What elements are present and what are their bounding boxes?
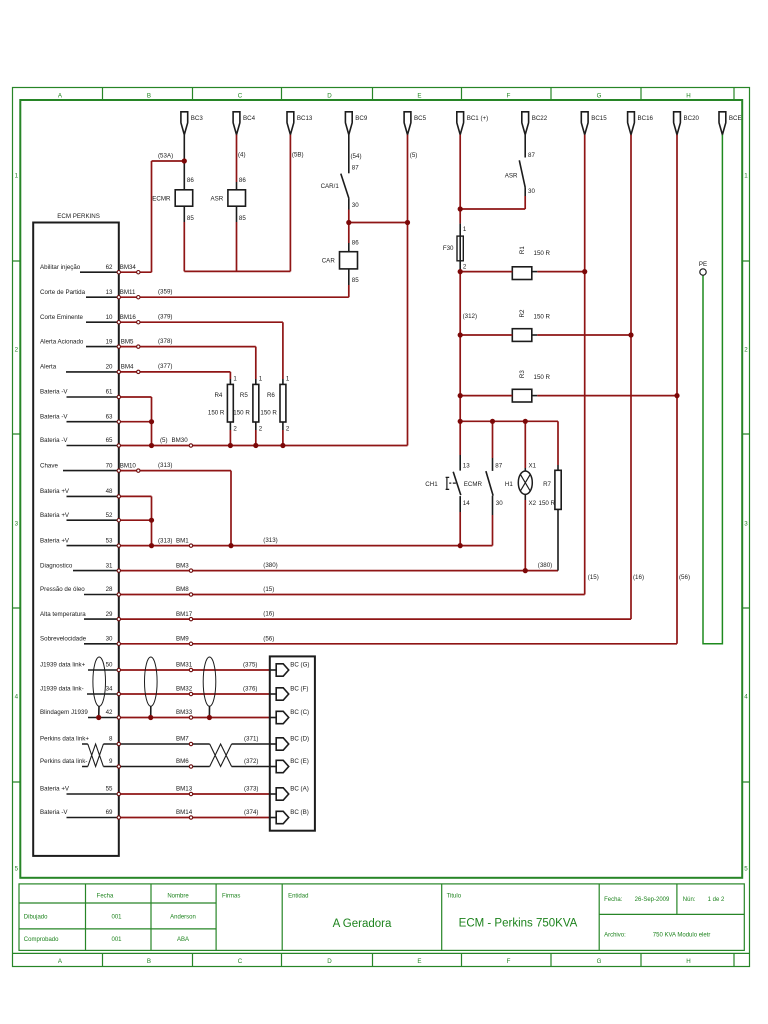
svg-text:R6: R6 [267,392,275,399]
svg-text:85: 85 [187,215,194,222]
wire BC3 down [183,135,185,161]
junction R5 bottom [253,443,258,448]
svg-text:CAR: CAR [322,258,336,265]
pin 9 Perkins data link- / net 372 BM6 [40,758,258,767]
svg-text:4: 4 [15,694,19,701]
svg-text:63: 63 [106,413,113,420]
svg-text:Titulo: Titulo [447,894,462,900]
junction CH1-14 row53 [458,543,463,548]
svg-text:BC9: BC9 [355,115,368,122]
pin 53 Bateria +V / net 313 BM1 [40,537,278,546]
svg-text:2: 2 [463,264,467,271]
svg-text:Alerta Acionado: Alerta Acionado [40,338,84,345]
svg-text:(313): (313) [158,537,172,544]
svg-text:BM11: BM11 [120,289,136,296]
port BC (B) [270,809,309,824]
svg-text:Bateria +V: Bateria +V [40,786,70,793]
svg-text:Anderson: Anderson [170,915,196,921]
svg-text:150 R: 150 R [534,374,551,381]
svg-text:BM4: BM4 [121,364,134,371]
svg-text:E: E [417,958,421,965]
svg-text:D: D [327,958,332,965]
connector BC5 [404,112,426,135]
junction BC5 row222 [405,220,410,225]
svg-text:F: F [507,958,511,965]
wire row 53 to ECMR-30 [121,545,493,547]
svg-text:Fecha:: Fecha: [604,897,623,903]
svg-text:62: 62 [106,264,113,271]
svg-text:R2: R2 [519,309,526,317]
pin 28 Pressao de oleo / net 15 BM8 [40,586,274,595]
svg-text:BC3: BC3 [191,115,204,122]
svg-text:13: 13 [463,462,470,469]
svg-text:G: G [597,93,602,100]
svg-text:BM16: BM16 [120,314,137,321]
svg-text:Chave: Chave [40,462,58,469]
junction 52-53 [149,543,154,548]
svg-text:30: 30 [352,202,359,209]
svg-text:CH1: CH1 [425,481,438,488]
svg-text:Alta temperatura: Alta temperatura [40,611,86,618]
wire net 377 BM4 to R4 [121,372,231,379]
title block [19,884,744,951]
junction 53A [182,158,187,163]
svg-text:Bateria -V: Bateria -V [40,413,68,420]
svg-text:BC (G): BC (G) [290,662,309,669]
svg-text:(4): (4) [238,151,246,158]
svg-text:(54): (54) [351,153,362,160]
svg-text:(53A): (53A) [158,153,173,160]
wire BCE earth bus green [703,135,722,644]
svg-text:C: C [238,958,243,965]
svg-text:Perkins data link-: Perkins data link- [40,758,87,765]
wire BC4 down / node 4 [236,135,238,182]
svg-text:2: 2 [233,425,237,432]
resistor R6 150R [260,375,290,432]
resistor R7 150R [539,421,562,570]
svg-text:BC (B): BC (B) [290,809,309,816]
svg-text:86: 86 [352,240,359,247]
svg-text:BC20: BC20 [684,115,700,122]
svg-text:87: 87 [352,164,359,171]
wire net 380 to R7 bottom [121,570,559,572]
junction 61-63 [149,419,154,424]
connector BC15 [581,112,607,135]
svg-text:Bateria -V: Bateria -V [40,389,68,396]
svg-text:1: 1 [286,375,290,382]
svg-text:Bateria +V: Bateria +V [40,537,70,544]
svg-text:X2: X2 [529,500,537,507]
svg-text:BC (E): BC (E) [290,758,309,765]
wire net 15 to BC15 column [121,594,585,596]
svg-text:BM14: BM14 [176,809,193,816]
wire net 378 BM5 to R5 [121,347,256,379]
svg-text:(374): (374) [244,809,258,816]
svg-text:(372): (372) [244,758,258,765]
fuse F30 [443,224,467,271]
svg-text:85: 85 [352,277,359,284]
svg-text:Sobrevelocidade: Sobrevelocidade [40,636,87,643]
svg-text:65: 65 [106,437,113,444]
svg-text:R5: R5 [240,392,248,399]
svg-text:55: 55 [106,786,113,793]
svg-text:BM17: BM17 [176,611,193,618]
wire BC20 column [676,135,678,644]
connector BC4 [233,112,255,135]
svg-text:(312): (312) [463,313,477,320]
switch CAR/1 [321,164,360,209]
junction CAR1-30 bus [346,220,351,225]
wire pin63 [121,421,152,423]
svg-text:50: 50 [106,662,113,669]
wire BC1 down [460,135,525,224]
svg-text:52: 52 [106,512,113,519]
svg-text:Alerta: Alerta [40,364,57,371]
svg-text:F30: F30 [443,245,454,252]
junction shield taps [96,715,101,720]
svg-text:BC (A): BC (A) [290,786,309,793]
svg-text:Pressão de óleo: Pressão de óleo [40,586,85,593]
svg-text:(16): (16) [633,574,644,581]
wire CH1-14 down [459,512,461,546]
svg-text:Comprobado: Comprobado [24,937,59,943]
ECM PERKINS box U-ECM [33,213,119,856]
wire CAR/1-30 down [348,198,350,209]
svg-text:(15): (15) [263,586,274,593]
svg-text:ECMR: ECMR [152,196,171,203]
svg-text:1: 1 [463,226,467,233]
svg-text:1: 1 [233,375,237,382]
svg-text:ASR: ASR [210,196,223,203]
wire ECMR-30 down [492,515,494,546]
wire BC15 column [584,135,586,595]
svg-text:87: 87 [495,462,502,469]
relay coil ASR [210,177,246,222]
connector BCE [719,112,742,135]
wire net 376 to BC (F) [121,693,270,695]
svg-text:3: 3 [744,521,748,528]
pin 52 Bateria +V [40,512,119,520]
svg-text:BC13: BC13 [297,115,313,122]
svg-text:D: D [327,93,332,100]
svg-text:(359): (359) [158,288,172,295]
svg-text:Blindagem J1939: Blindagem J1939 [40,709,88,716]
svg-text:BC1 (+): BC1 (+) [467,115,489,122]
svg-text:1 de 2: 1 de 2 [708,897,725,903]
svg-text:31: 31 [106,562,113,569]
port BC (F) [270,686,309,701]
wire net 16 to BC16 column [121,618,632,620]
svg-text:28: 28 [106,586,113,593]
svg-text:BM10: BM10 [120,462,137,469]
frame inner border [20,100,742,878]
junction R3 left [458,393,463,398]
junction R2 left [458,332,463,337]
junction R1 right BC15 [582,269,587,274]
svg-text:BM34: BM34 [120,264,137,271]
wire BM34 to node 53A [121,161,185,272]
svg-text:R7: R7 [543,481,551,488]
svg-text:5: 5 [15,866,19,873]
left band ticks and row numbers [13,261,21,782]
junction bus421 H1 [523,419,528,424]
twisted pair cross left [88,744,104,767]
pin 65 Bateria -V / net 5 BM30 [40,437,188,445]
wire BC13 down / node 5B [289,135,291,272]
pin 55 Bateria +V / net 373 BM13 [40,786,258,795]
resistor R2 150R [512,309,550,341]
pin 42 Blindagem J1939 / BM33 [40,709,193,717]
svg-text:(371): (371) [244,736,258,743]
wire CAR-85 down [348,285,350,297]
svg-text:2: 2 [744,347,748,354]
svg-text:ECM PERKINS: ECM PERKINS [57,213,100,220]
wire R5 bottom [255,430,257,446]
port BC (D) [270,736,309,751]
svg-text:J1939 data link-: J1939 data link- [40,686,84,693]
wire net 359 BM11 to CAR-85 [121,296,349,298]
svg-text:(16): (16) [263,611,274,618]
wire net 5 row to BC5 [121,445,408,447]
top band dividers [103,88,735,101]
junction 65 row [149,443,154,448]
svg-text:150 R: 150 R [260,410,277,417]
svg-text:J1939 data link+: J1939 data link+ [40,662,86,669]
svg-text:14: 14 [463,500,470,507]
svg-text:X1: X1 [529,462,537,469]
wire R3 row [460,395,677,397]
svg-text:8: 8 [109,736,113,743]
svg-text:Nombre: Nombre [167,894,189,900]
svg-text:C: C [238,93,243,100]
svg-text:1: 1 [259,375,263,382]
pin 48 Bateria +V [40,488,119,496]
wire net 371 to BC (D) [121,743,270,745]
right band ticks and row numbers [742,261,749,782]
svg-text:3: 3 [15,521,19,528]
svg-text:(373): (373) [244,786,258,793]
wire BC1 column middle [459,270,461,455]
svg-text:Dibujado: Dibujado [24,915,48,921]
svg-text:BM3: BM3 [176,562,189,569]
svg-text:BC22: BC22 [532,115,548,122]
svg-text:(5): (5) [160,437,168,444]
wire BC22 down [524,135,526,158]
port BC (A) [270,786,309,801]
wire net 372 to BC (E) [121,766,270,768]
svg-text:150 R: 150 R [534,250,551,257]
wire net 379 BM16 to R6 [121,322,283,379]
svg-text:(378): (378) [158,338,172,345]
connector BC20 [674,112,700,135]
svg-text:(380): (380) [263,562,277,569]
svg-text:B: B [147,93,151,100]
relay coil CAR [322,240,360,285]
resistor R3 150R [512,370,550,402]
junction H1-X2 row380 [523,568,528,573]
svg-text:(15): (15) [588,574,599,581]
pin 30 Sobrevelocidade / net 56 BM9 [40,635,274,644]
svg-text:61: 61 [106,389,113,396]
svg-text:Bateria -V: Bateria -V [40,437,68,444]
svg-text:BM33: BM33 [176,709,193,716]
svg-text:(379): (379) [158,313,172,320]
svg-text:4: 4 [744,694,748,701]
svg-text:BC (F): BC (F) [290,686,308,693]
svg-text:87: 87 [528,152,535,159]
twisted pair cross right [210,744,232,767]
BC output connector box [270,656,315,830]
svg-text:Corte Eminente: Corte Eminente [40,314,84,321]
svg-text:Firmas: Firmas [222,894,240,900]
svg-text:150 R: 150 R [539,500,556,507]
svg-text:5: 5 [744,866,748,873]
svg-text:BM5: BM5 [121,338,134,345]
svg-text:BC (D): BC (D) [290,736,309,743]
svg-text:2: 2 [286,425,290,432]
svg-text:750 KVA Modulo eletr: 750 KVA Modulo eletr [653,933,711,939]
svg-text:(56): (56) [679,574,690,581]
svg-text:Corte de Partida: Corte de Partida [40,289,86,296]
svg-text:BM31: BM31 [176,662,193,669]
shield ellipse 1 [93,657,106,718]
svg-text:PE: PE [699,261,707,268]
wire pin52 [121,519,152,521]
svg-text:BCE: BCE [729,115,742,122]
port BC (G) [270,662,310,677]
svg-text:34: 34 [106,686,113,693]
svg-text:F: F [507,93,511,100]
pin 69 Bateria -V / net 374 BM14 [40,809,258,818]
pin 31 Diagnostico / net 380 BM3 [40,562,278,571]
junction 48-52 [149,518,154,523]
wire BC9 down / node 54 [348,135,350,174]
svg-text:CAR/1: CAR/1 [321,183,340,190]
svg-text:(5B): (5B) [292,151,304,158]
svg-text:(377): (377) [158,363,172,370]
svg-text:1: 1 [15,173,19,180]
svg-text:BM9: BM9 [176,636,189,643]
svg-text:2: 2 [15,347,19,354]
resistor R5 150R [233,375,263,432]
svg-text:48: 48 [106,488,113,495]
svg-text:9: 9 [109,758,113,765]
svg-text:H: H [686,93,690,100]
relay coil ECMR [152,161,194,222]
svg-text:30: 30 [528,188,535,195]
svg-text:19: 19 [106,338,113,345]
shield ellipse 3 [203,657,216,718]
svg-text:(313): (313) [263,537,277,544]
pin 50 J1939 data link+ / net 375 BM31 [40,662,257,671]
svg-text:R1: R1 [519,246,526,254]
svg-text:BM6: BM6 [176,758,189,765]
wire net 373 to BC (A) [121,793,270,795]
svg-text:ECMR: ECMR [464,481,483,488]
svg-text:Nún:: Nún: [683,897,696,903]
switch ASR contact [505,152,536,195]
bottom band [13,952,750,954]
svg-text:69: 69 [106,809,113,816]
svg-text:(376): (376) [243,686,257,693]
svg-text:42: 42 [106,709,113,716]
pin 13 Corte de Partida [40,288,172,297]
svg-text:Archivo:: Archivo: [604,933,626,939]
wire net 56 to BC20 column [121,643,678,645]
wire control bus row 421 [460,421,558,468]
svg-text:2: 2 [259,425,263,432]
svg-text:BC5: BC5 [414,115,427,122]
svg-text:ABA: ABA [177,937,189,943]
svg-text:BM30: BM30 [172,437,189,444]
svg-text:A Geradora: A Geradora [333,918,392,930]
pushbutton CH1 [425,455,470,512]
svg-text:150 R: 150 R [534,314,551,321]
svg-text:BM8: BM8 [176,586,189,593]
wire pin61 [121,397,152,446]
wire net 313 BM10 down to row 53 [121,471,232,546]
svg-text:86: 86 [187,177,194,184]
pin 20 Alerta [40,363,172,372]
port BC (C) [270,709,309,724]
resistor R1 150R [512,246,550,280]
wire R2 row [460,334,631,336]
svg-text:E: E [417,93,421,100]
svg-text:Diagnostico: Diagnostico [40,562,73,569]
svg-text:ASR: ASR [505,172,518,179]
svg-text:86: 86 [239,177,246,184]
svg-text:BC (C): BC (C) [290,709,309,716]
junction R1 left [458,269,463,274]
svg-text:B: B [147,958,151,965]
svg-text:001: 001 [111,937,122,943]
svg-text:(375): (375) [243,662,257,669]
shield ellipse 2 [145,657,158,718]
svg-text:Fecha: Fecha [97,894,114,900]
wire H1-X2 down [524,500,526,571]
svg-text:29: 29 [106,611,113,618]
svg-text:1: 1 [744,173,748,180]
pin circle 62 [117,271,120,274]
wire R4 bottom [229,430,231,446]
svg-text:001: 001 [111,915,122,921]
junction BC1 ASR30 [458,206,463,211]
svg-text:30: 30 [496,500,503,507]
svg-text:H1: H1 [505,481,513,488]
port BC (E) [270,758,309,773]
pin 29 Alta temperatura / net 16 BM17 [40,611,274,620]
pin 61 Bateria -V [40,389,119,397]
wire net 375 to BC (G) [121,669,270,671]
junction R3 right BC20 [674,393,679,398]
svg-text:R4: R4 [214,392,222,399]
connector BC9 [345,112,367,135]
connector BC13 [287,112,313,135]
svg-text:(5): (5) [410,152,418,159]
svg-text:26-Sep-2009: 26-Sep-2009 [635,897,670,903]
wire R1 row [460,271,585,273]
connector BC1 [457,112,488,135]
svg-text:13: 13 [106,289,113,296]
pin 8 Perkins data link+ / net 371 BM7 [40,736,258,745]
connector BC22 [522,112,548,135]
svg-text:BM1: BM1 [176,537,189,544]
svg-text:BM32: BM32 [176,686,193,693]
pin 34 J1939 data link- / net 376 BM32 [40,686,257,695]
svg-text:BC15: BC15 [591,115,607,122]
wire BC16 column [630,135,632,619]
wire ASR-30 down [524,187,526,196]
